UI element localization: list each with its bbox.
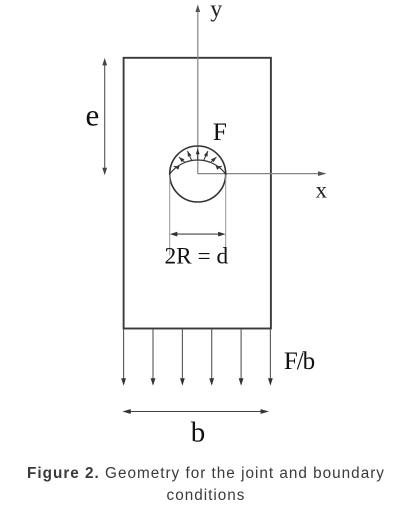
bottom load arrow 5 [239,329,244,386]
svg-text:e: e [86,97,100,132]
hole circle [170,146,226,202]
extension line left [169,175,171,256]
load envelope arc [170,160,226,174]
extension line right [225,175,227,256]
bottom load arrow 4 [209,329,214,386]
load arrow 42deg [211,157,217,162]
svg-text:F/b: F/b [284,348,315,375]
load arrow 66deg [204,151,208,161]
plate rectangle [124,58,271,329]
bottom load arrow 3 [180,329,185,386]
y-axis [195,5,200,175]
load arrow 18deg [216,166,222,170]
figure caption [0,463,412,508]
2R dimension arrow [170,232,226,237]
bottom load arrow 1 [121,329,126,386]
load arrow 90deg [196,149,200,160]
load arrow 138deg [179,157,185,162]
svg-text:b: b [191,416,206,448]
load arrow 162deg [174,166,180,170]
svg-text:F: F [213,117,227,146]
bottom load arrow 2 [151,329,156,386]
b dimension arrow [122,409,269,414]
svg-text:2R = d: 2R = d [164,244,228,270]
svg-text:y: y [210,0,222,23]
svg-text:x: x [316,177,328,202]
x-axis [198,171,327,176]
load arrow 114deg [188,151,192,161]
e dimension arrow [102,58,107,175]
bottom load arrow 6 [268,329,273,386]
